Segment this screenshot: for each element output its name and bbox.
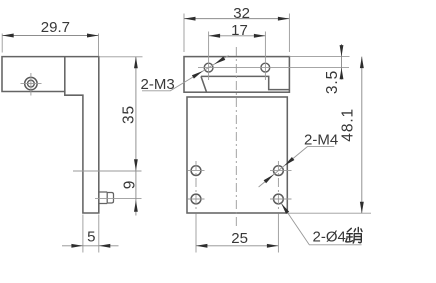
dim 5 line and tails	[62, 245, 119, 247]
dim 32 extension lines	[184, 14, 289, 53]
svg-text:32: 32	[233, 5, 250, 22]
bracket left side view outline	[2, 57, 99, 213]
M3 holes horizontal centerline	[198, 67, 349, 69]
svg-text:2-M3: 2-M3	[141, 76, 175, 93]
label 2-M3 leader	[142, 56, 229, 91]
screw hole (left view) outer circle	[25, 77, 37, 89]
dim 25 arrows	[196, 244, 208, 248]
screw hole (left view) inner circle	[28, 80, 35, 87]
dim 3.5 arrows	[340, 45, 344, 57]
top plate outline	[184, 57, 289, 93]
screw hole centerlines	[21, 73, 42, 96]
dim 9 bottom arrow	[134, 200, 138, 212]
M4 hole top-left	[191, 166, 201, 176]
extension plate top right	[289, 56, 349, 58]
hole column centerline right	[277, 161, 279, 210]
svg-text:9: 9	[121, 180, 138, 190]
hole column centerline left	[195, 161, 197, 210]
dim 25 line	[196, 245, 279, 247]
svg-text:35: 35	[120, 105, 137, 124]
svg-text:2-Ø4: 2-Ø4	[313, 229, 346, 246]
body center axis	[235, 47, 237, 227]
dim 29.7 line	[2, 35, 98, 37]
dim 32 line	[184, 18, 289, 20]
arm inner edge	[64, 57, 66, 92]
2-M4 arrow lower-left	[264, 175, 274, 184]
main body outline	[187, 97, 287, 213]
dim 5 extension lines	[83, 215, 99, 253]
M3 hole centerline left vertical	[208, 32, 210, 81]
svg-text:5: 5	[87, 229, 95, 246]
dim 48.1 line	[361, 57, 363, 214]
dim 29.7 extension lines	[2, 34, 98, 57]
dim 48.1 arrows	[360, 57, 364, 69]
pin end cap	[107, 193, 113, 204]
extension line mounting face	[73, 170, 142, 172]
svg-text:48.1: 48.1	[340, 108, 357, 142]
svg-text:25: 25	[231, 230, 248, 247]
hole crosses horizontal	[188, 171, 292, 199]
pin hole bottom-right	[274, 194, 284, 204]
M3 hole left	[204, 63, 213, 72]
dim 35/9 vertical line	[135, 57, 137, 216]
dim 29.7 arrows	[2, 34, 14, 38]
label 2-D4 pin leader	[281, 203, 361, 245]
2-M3 arrow lower-left	[192, 71, 203, 79]
svg-text:3.5: 3.5	[324, 70, 341, 94]
2-D4 arrow	[281, 203, 289, 214]
dim 32 arrows	[184, 17, 196, 21]
plate recess slant	[201, 76, 206, 91]
pin centerline	[95, 197, 142, 199]
dim 3.5 line	[341, 44, 343, 80]
svg-text:29.7: 29.7	[41, 19, 70, 36]
extension line arm top	[99, 56, 143, 58]
dim 5 arrows	[71, 244, 83, 248]
plate recess inner line	[201, 76, 289, 89]
dim 17 line	[209, 35, 266, 37]
pin hole bottom-left	[191, 194, 201, 204]
pin (left view) body	[99, 192, 107, 204]
dim 35 arrows	[134, 57, 138, 69]
M3 hole centerline right vertical	[264, 32, 266, 81]
svg-text:2-M4: 2-M4	[304, 132, 338, 149]
label 2-M4 leader	[259, 147, 335, 187]
svg-text:17: 17	[231, 22, 248, 39]
extension body bottom right	[287, 212, 371, 214]
dim 17 arrows	[209, 34, 221, 38]
M4 hole top-right	[274, 166, 284, 176]
hanzi xiao (pin) glyph	[346, 227, 362, 243]
2-M3 arrow upper-right	[214, 57, 225, 65]
2-M4 arrow upper-right	[284, 157, 294, 166]
M3 hole right	[261, 63, 270, 72]
